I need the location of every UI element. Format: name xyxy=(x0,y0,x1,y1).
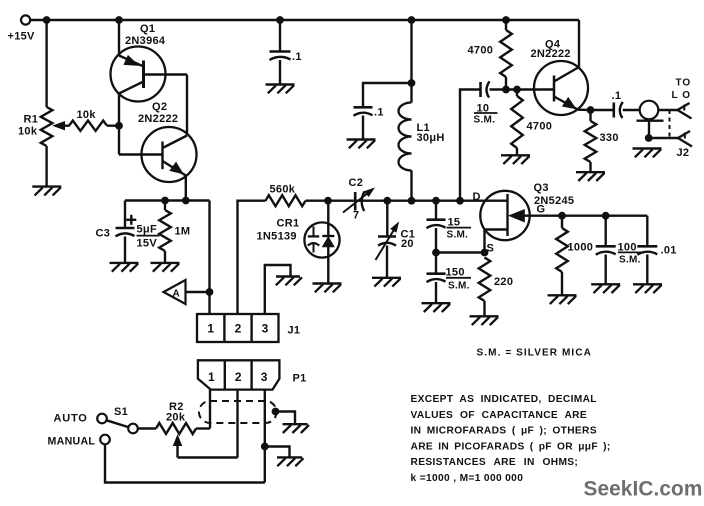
wire 10SM drop xyxy=(460,90,481,201)
ground 1000 xyxy=(548,295,577,304)
node 1M top xyxy=(162,197,169,204)
resistor 10k wiper xyxy=(54,121,120,131)
svg-text:AUTO: AUTO xyxy=(54,413,88,425)
capacitor 100 S.M. xyxy=(596,216,616,285)
connector J1 xyxy=(197,314,279,342)
resistor 1000 xyxy=(556,216,568,296)
node 1000 xyxy=(559,212,566,219)
svg-text:RESISTANCES ARE IN OHMS;: RESISTANCES ARE IN OHMS; xyxy=(411,457,579,468)
svg-text:S.M. = SILVER MICA: S.M. = SILVER MICA xyxy=(477,348,592,359)
wire J1 pin1 lead xyxy=(208,201,210,315)
node rail-L1 xyxy=(408,17,415,24)
svg-text:20k: 20k xyxy=(166,412,186,424)
svg-text:5μF: 5μF xyxy=(137,224,157,236)
wire P1 pin2 lead xyxy=(236,390,238,458)
inductor L1 xyxy=(399,103,412,201)
capacitor 10 S.M. xyxy=(481,81,490,97)
node 10k-Q1C xyxy=(116,122,123,129)
wire cap to plug xyxy=(623,109,640,111)
wire gate line xyxy=(562,214,647,216)
svg-text:4700: 4700 xyxy=(468,45,494,57)
svg-text:P1: P1 xyxy=(293,373,307,385)
wire L1 tap xyxy=(363,83,412,107)
svg-text:.1: .1 xyxy=(612,90,622,102)
node base-4700top xyxy=(503,86,510,93)
node Q4 emitter xyxy=(587,107,594,114)
ground J1 pin3 xyxy=(276,277,302,286)
transistor Q2 xyxy=(119,126,197,201)
node L1 tap xyxy=(408,80,415,87)
svg-text:7: 7 xyxy=(353,210,359,222)
resistor R2 xyxy=(156,423,210,434)
node 15SM xyxy=(433,197,440,204)
node 100SM xyxy=(602,212,609,219)
ground 150 S.M. xyxy=(422,303,451,312)
ground 1M xyxy=(151,263,180,272)
svg-text:VALUES OF CAPACITANCE ARE: VALUES OF CAPACITANCE ARE xyxy=(411,410,588,421)
capacitor .01 xyxy=(637,216,657,285)
wire to J2 upper xyxy=(658,109,677,111)
svg-text:220: 220 xyxy=(494,276,513,288)
ground 100 S.M. xyxy=(591,284,620,293)
ground .1 mid xyxy=(347,140,376,149)
wire top rail xyxy=(30,19,579,21)
wire SM to source xyxy=(436,251,485,253)
transistor Q4 xyxy=(534,61,591,115)
node rail-R1 xyxy=(43,17,50,24)
svg-text:S.M.: S.M. xyxy=(474,115,496,126)
wire P1 pin3 lead xyxy=(264,390,266,483)
svg-text:J2: J2 xyxy=(677,147,690,159)
resistor 1M xyxy=(159,201,171,263)
wire MANUAL to pin3 xyxy=(105,444,265,482)
wire Q4 base xyxy=(490,88,555,90)
svg-text:S.M.: S.M. xyxy=(619,254,641,265)
svg-text:D: D xyxy=(473,191,481,203)
node plug gnd xyxy=(645,135,652,142)
capacitor .1 top xyxy=(270,20,291,85)
wire R1 top xyxy=(45,20,47,107)
svg-text:.1: .1 xyxy=(374,107,384,119)
jack J2 lower contact xyxy=(678,131,692,147)
svg-text:Q3: Q3 xyxy=(534,182,549,194)
node 15SM bottom xyxy=(433,249,440,256)
svg-text:R1: R1 xyxy=(24,114,39,126)
svg-text:1N5139: 1N5139 xyxy=(257,231,297,243)
node A xyxy=(164,280,213,304)
svg-text:2N2222: 2N2222 xyxy=(138,113,178,125)
svg-text:3: 3 xyxy=(261,370,268,384)
svg-text:C2: C2 xyxy=(349,177,364,189)
cable shield dashed xyxy=(199,401,277,423)
svg-text:A: A xyxy=(173,289,180,300)
wire L1 top xyxy=(410,20,412,103)
capacitor C1 xyxy=(376,201,399,278)
node base-4700low xyxy=(514,86,521,93)
svg-text:Q2: Q2 xyxy=(152,101,167,113)
wire emitter to cap xyxy=(591,109,614,111)
svg-text:S.M.: S.M. xyxy=(447,230,469,241)
ground .1 top xyxy=(266,85,295,94)
wire shield to ground xyxy=(276,412,296,425)
ground 220 xyxy=(470,316,499,325)
svg-text:+15V: +15V xyxy=(8,31,36,43)
svg-text:10k: 10k xyxy=(77,109,97,121)
svg-text:S1: S1 xyxy=(114,406,128,418)
ground C3 xyxy=(110,263,139,272)
node rail-4700 xyxy=(503,17,510,24)
capacitor C3 xyxy=(116,201,135,263)
svg-text:MANUAL: MANUAL xyxy=(48,436,96,448)
resistor R1 xyxy=(41,107,53,146)
ground 4700 lower xyxy=(501,155,530,164)
terminal +15V xyxy=(21,15,30,24)
wire J2 dashed xyxy=(669,110,671,138)
capacitor 150 S.M. xyxy=(427,253,446,304)
svg-text:Q1: Q1 xyxy=(140,23,155,35)
svg-text:k =1000 , M=1 000 000: k =1000 , M=1 000 000 xyxy=(411,473,524,484)
node 10SM drop xyxy=(457,197,464,204)
svg-text:1: 1 xyxy=(207,322,214,336)
transistor Q3 xyxy=(480,191,562,253)
wire main line xyxy=(306,199,508,201)
svg-text:J1: J1 xyxy=(288,325,301,337)
pot R2 wiper xyxy=(174,436,182,458)
ground C1 xyxy=(372,278,401,287)
svg-text:L O: L O xyxy=(672,90,691,101)
capacitor .1 mid xyxy=(354,107,373,139)
wire plug down xyxy=(648,121,650,138)
svg-text:10k: 10k xyxy=(18,126,38,138)
svg-text:TO: TO xyxy=(676,78,692,89)
wire Q4 collector xyxy=(578,20,580,67)
svg-text:.1: .1 xyxy=(292,51,302,63)
svg-text:S.M.: S.M. xyxy=(448,281,470,292)
ground shield xyxy=(283,424,310,433)
svg-text:15: 15 xyxy=(448,217,461,229)
resistor 4700 top xyxy=(500,20,512,90)
ground .01 xyxy=(633,284,662,293)
svg-text:.01: .01 xyxy=(661,245,677,257)
svg-text:150: 150 xyxy=(446,267,465,279)
transistor Q1 xyxy=(111,20,188,126)
svg-text:CR1: CR1 xyxy=(277,218,300,230)
node C1 xyxy=(384,197,391,204)
resistor 330 xyxy=(585,110,597,172)
switch S1 xyxy=(97,414,138,445)
svg-text:G: G xyxy=(537,204,546,216)
wire Q1 base to Q2 collector xyxy=(186,75,188,136)
svg-text:3: 3 xyxy=(262,322,269,336)
svg-text:C3: C3 xyxy=(96,228,111,240)
node pin3 gnd xyxy=(261,443,268,450)
svg-text:IN MICROFARADS ( μF ); OTHERS: IN MICROFARADS ( μF ); OTHERS xyxy=(411,426,597,437)
svg-text:330: 330 xyxy=(600,132,619,144)
svg-text:S: S xyxy=(487,243,495,255)
svg-text:EXCEPT AS INDICATED, DECIMAL: EXCEPT AS INDICATED, DECIMAL xyxy=(411,394,597,405)
svg-text:15V: 15V xyxy=(137,238,158,250)
wire P1 pin1 lead xyxy=(209,390,211,429)
resistor 4700 lower xyxy=(511,90,523,156)
wire S1 to R2 xyxy=(138,427,156,429)
capacitor C2 xyxy=(343,188,374,212)
node Q3 source xyxy=(481,249,488,256)
wire R1 bottom xyxy=(45,146,47,187)
node rail-Q1 xyxy=(116,17,123,24)
note text block xyxy=(411,394,611,484)
node rail-C.1a xyxy=(277,17,284,24)
resistor 220 xyxy=(479,258,491,317)
jack J2 upper contact xyxy=(678,103,692,119)
svg-text:2N3964: 2N3964 xyxy=(125,35,166,47)
capacitor .1 output xyxy=(614,102,623,118)
svg-text:1M: 1M xyxy=(175,226,191,238)
ground R1 xyxy=(32,187,61,196)
node shield gnd xyxy=(272,408,279,415)
ground 330 xyxy=(576,172,605,181)
svg-text:2N2222: 2N2222 xyxy=(531,48,571,60)
wire wiper to pin2 xyxy=(178,456,238,458)
svg-text:2: 2 xyxy=(235,322,242,336)
node L1 bottom xyxy=(408,197,415,204)
wire to J2 lower xyxy=(649,137,678,139)
connector P1 xyxy=(198,360,280,389)
svg-text:30μH: 30μH xyxy=(417,132,445,144)
svg-text:20: 20 xyxy=(401,238,414,250)
connector plug xyxy=(637,101,664,121)
wire J1 pin3 lead xyxy=(265,265,291,314)
ground CR1 xyxy=(313,284,342,293)
wire J1 pin2 lead xyxy=(238,201,266,314)
wire pin3 to ground xyxy=(265,447,290,458)
diode CR1 xyxy=(304,201,339,284)
svg-text:560k: 560k xyxy=(270,184,296,196)
svg-text:1: 1 xyxy=(208,370,215,384)
wire Q2 emitter row xyxy=(125,199,210,201)
capacitor 15 S.M. xyxy=(427,201,446,253)
svg-text:ARE IN PICOFARADS ( pF OR μμF: ARE IN PICOFARADS ( pF OR μμF ); xyxy=(411,441,611,452)
svg-text:SeekIC.com: SeekIC.com xyxy=(584,478,703,501)
node Q2 emitter xyxy=(182,197,189,204)
svg-text:2: 2 xyxy=(235,370,242,384)
svg-text:4700: 4700 xyxy=(527,121,553,133)
ground plug xyxy=(633,149,662,158)
svg-text:1000: 1000 xyxy=(568,242,594,254)
resistor 560k xyxy=(266,195,306,206)
ground pin3 xyxy=(277,457,304,466)
node CR1 xyxy=(325,197,332,204)
